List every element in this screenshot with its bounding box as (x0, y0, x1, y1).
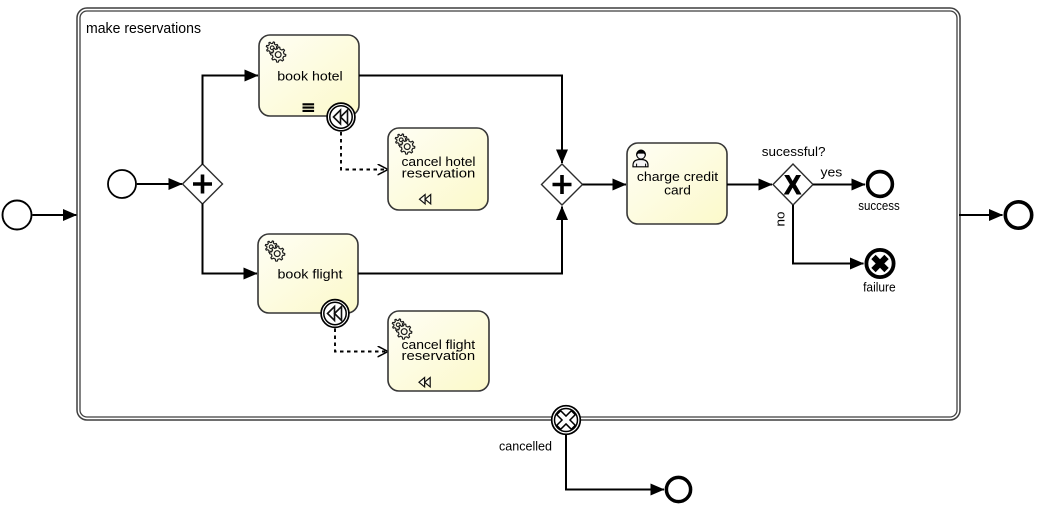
svg-text:no: no (773, 212, 788, 227)
wire: book hotel to gateway G2 (359, 76, 562, 164)
XOR gateway (sucessful?) (773, 164, 813, 205)
task: cancel flight reservation (388, 311, 489, 391)
end event (bottom) (666, 477, 690, 501)
svg-text:X: X (784, 170, 801, 200)
task: book hotel (259, 35, 359, 116)
svg-text:failure: failure (863, 280, 896, 295)
svg-text:book hotel: book hotel (277, 69, 343, 84)
service gear icon (book flight) (265, 241, 284, 261)
dotted association: flight boundary to cancel flight (335, 329, 388, 352)
parallel gateway G2 (converging) (542, 164, 583, 205)
task: book flight (258, 234, 358, 313)
task: charge credit card (627, 143, 727, 224)
end event: failure (cancel) (866, 250, 893, 277)
svg-text:success: success (858, 198, 900, 213)
boundary cancel event (subprocess bottom) (552, 406, 581, 435)
service gear icon (cancel hotel) (395, 134, 414, 154)
svg-text:card: card (664, 182, 691, 197)
wire: G2 to charge credit card (583, 184, 627, 186)
svg-text:reservation: reservation (402, 165, 476, 180)
wire: XOR to success (813, 184, 865, 186)
dotted association: hotel boundary to cancel hotel (341, 132, 388, 170)
end event (final) (1005, 202, 1031, 228)
wire: cancel boundary to bottom end event (566, 435, 664, 490)
wire: subprocess to final end event (959, 214, 1003, 216)
parallel gateway G1 (diverging) (183, 164, 223, 204)
svg-text:cancelled: cancelled (499, 439, 552, 454)
boundary compensation event (book hotel) (327, 103, 355, 131)
compensation marker (cancel hotel) (420, 195, 431, 204)
start event (inner) (108, 170, 136, 198)
subprocess make reservations (inner border) (80, 11, 957, 417)
subprocess make reservations (outer border) (77, 8, 960, 420)
compensation marker (cancel flight) (419, 378, 430, 387)
end event: success (868, 172, 893, 197)
svg-text:sucessful?: sucessful? (762, 144, 826, 159)
wire: book flight to gateway G2 (358, 207, 562, 274)
service gear icon (cancel flight) (392, 319, 411, 339)
wire: outer start to subprocess (33, 214, 77, 216)
service gear icon (book hotel) (266, 42, 285, 62)
wire: XOR to failure (793, 205, 864, 264)
wire: G1 to book hotel (203, 76, 259, 165)
sequential multi-instance marker (book hotel) (303, 104, 315, 111)
user icon (charge credit card) (633, 150, 648, 167)
boundary compensation event (book flight) (321, 300, 349, 328)
svg-text:yes: yes (821, 164, 843, 179)
task: cancel hotel reservation (388, 128, 488, 210)
svg-text:reservation: reservation (402, 348, 476, 363)
wire: charge credit card to XOR gateway (727, 184, 772, 186)
wire: inner start to gateway G1 (137, 183, 182, 185)
svg-text:make reservations: make reservations (86, 21, 201, 37)
start event (outer) (3, 201, 32, 230)
svg-text:book flight: book flight (278, 267, 343, 282)
wire: G1 to book flight (203, 204, 258, 274)
